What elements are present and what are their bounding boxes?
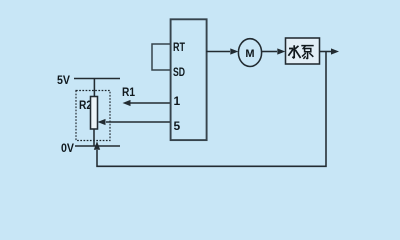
wire motor to pump xyxy=(262,51,277,53)
arrowhead to motor xyxy=(230,48,238,54)
pin label 1 xyxy=(174,94,181,108)
svg-text:5V: 5V xyxy=(57,73,70,87)
wire 5V to R2 top xyxy=(93,79,95,97)
label R2 xyxy=(79,98,92,112)
wire 0V rail xyxy=(75,145,120,147)
wire pin 1 output xyxy=(130,102,171,104)
label R1 xyxy=(122,85,135,99)
label 0V xyxy=(61,141,74,155)
svg-text:5: 5 xyxy=(174,119,181,133)
wire IC output to motor xyxy=(206,51,230,53)
label 泵 (pump) glyph xyxy=(301,46,313,59)
svg-text:1: 1 xyxy=(174,94,181,108)
wire pump output xyxy=(320,51,333,53)
arrowhead pin 1 xyxy=(123,100,131,106)
thermistor RT loop (box on RT/SD pins) xyxy=(152,44,171,70)
label M xyxy=(245,48,254,60)
pin label SD xyxy=(173,65,185,79)
arrowhead output xyxy=(331,48,339,54)
svg-text:R1: R1 xyxy=(122,85,135,99)
wire feedback to 0V xyxy=(97,52,326,167)
pin label RT xyxy=(173,40,185,54)
dashed enclosure around R2 xyxy=(76,91,110,141)
wire R2 bottom to 0V xyxy=(93,129,95,146)
arrowhead to pump xyxy=(277,48,285,54)
wire 5V rail xyxy=(74,78,120,80)
IC U1 controller block xyxy=(171,19,207,140)
label 5V xyxy=(57,73,70,87)
resistor R2 (potentiometer body) xyxy=(91,97,98,130)
motor M xyxy=(238,39,261,67)
label 水 (water) glyph xyxy=(288,45,300,58)
svg-text:0V: 0V xyxy=(61,141,74,155)
svg-text:SD: SD xyxy=(173,65,185,79)
pump block (water pump) xyxy=(286,38,320,64)
arrowhead feedback up xyxy=(94,141,100,150)
svg-text:RT: RT xyxy=(173,40,185,54)
wire pin 5 to R2 wiper xyxy=(106,121,171,123)
pin label 5 xyxy=(174,119,181,133)
arrowhead wiper xyxy=(98,119,106,125)
svg-text:M: M xyxy=(245,48,254,60)
